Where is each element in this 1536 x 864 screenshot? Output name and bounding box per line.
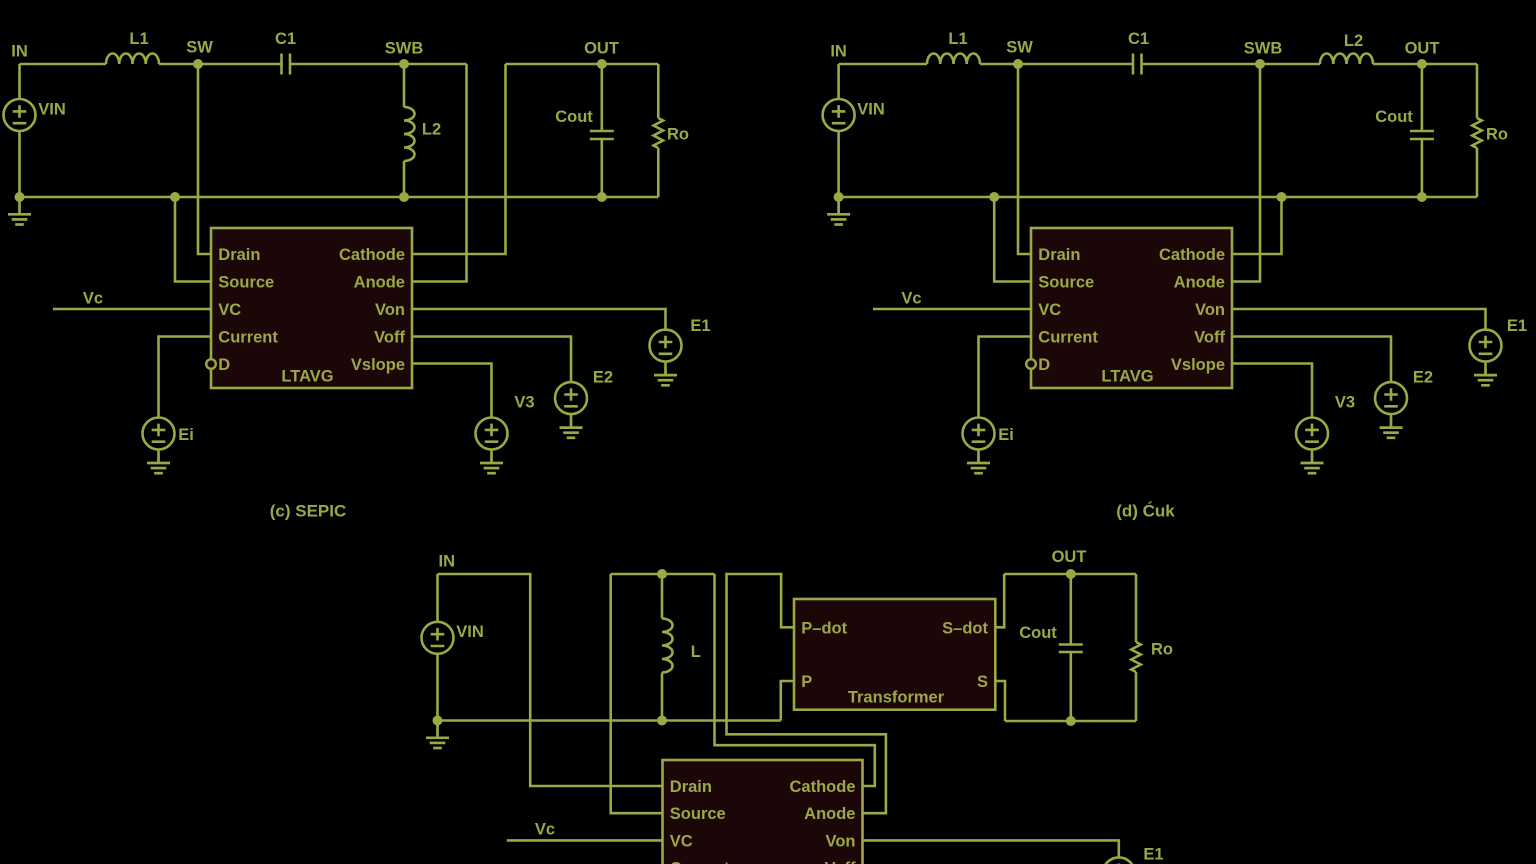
- voltage source VIN: [4, 99, 36, 131]
- node SW junction: [193, 59, 203, 69]
- capacitor Cout top lead: [600, 64, 603, 131]
- resistor Ro top lead: [657, 64, 660, 118]
- wire SW to IC Drain: [198, 64, 211, 254]
- svg-text:VIN: VIN: [456, 623, 484, 641]
- svg-text:VIN: VIN: [857, 100, 885, 118]
- svg-text:V3: V3: [514, 394, 534, 412]
- svg-text:Ro: Ro: [667, 126, 689, 144]
- wire anode riser to IC Anode: [412, 64, 467, 282]
- node OUT junction: [597, 59, 607, 69]
- resistor Ro bottom lead: [1135, 672, 1138, 721]
- svg-text:Von: Von: [826, 832, 856, 850]
- svg-text:Vc: Vc: [901, 290, 921, 308]
- inductor L2: [404, 107, 415, 161]
- wire ground rail: [839, 196, 1477, 199]
- svg-text:Ei: Ei: [178, 426, 194, 444]
- capacitor Cout top lead: [1070, 574, 1073, 645]
- wire IN to L1: [20, 63, 107, 66]
- voltage source V3: [476, 418, 508, 450]
- svg-text:Ei: Ei: [998, 426, 1014, 444]
- junction L2-rail: [399, 192, 409, 202]
- inductor L1: [927, 54, 980, 65]
- wire Current to Ei: [159, 337, 212, 418]
- voltage source Ei: [143, 418, 175, 450]
- voltage source E1: [650, 330, 682, 362]
- svg-text:SWB: SWB: [385, 40, 424, 58]
- wire C1 to SWB to L2: [1142, 63, 1321, 66]
- wire ground rail: [20, 196, 659, 199]
- resistor Ro: [654, 118, 664, 148]
- wire VIN top lead: [436, 574, 439, 622]
- resistor Ro top lead: [1135, 574, 1138, 642]
- inductor L2: [1320, 54, 1373, 65]
- svg-text:Cathode: Cathode: [339, 246, 405, 264]
- resistor Ro bottom lead: [1476, 148, 1479, 197]
- wire Von to E1: [863, 840, 1119, 857]
- wire VIN top lead: [837, 64, 840, 99]
- inductor L bottom lead: [661, 673, 664, 721]
- op-amp-style averaged switch model IC U2 LTAVG: [1031, 228, 1232, 388]
- wire IC Cathode riser: [412, 64, 506, 254]
- wire VIN top lead: [18, 64, 21, 99]
- wire P to input rail: [781, 681, 794, 721]
- svg-text:IN: IN: [11, 43, 28, 61]
- inductor L1: [106, 54, 159, 65]
- wire source net top: [611, 573, 715, 576]
- ground at V3: [480, 454, 503, 473]
- svg-text:Voff: Voff: [825, 860, 856, 864]
- wire IC Source drop: [611, 574, 663, 813]
- wire Vslope to V3: [412, 364, 492, 418]
- op-amp-style averaged switch model IC U1 LTAVG: [211, 228, 412, 388]
- wire VIN bottom lead: [436, 654, 439, 721]
- ground at VIN: [8, 197, 31, 225]
- transformer T1: [794, 599, 995, 710]
- wire Ei bottom lead: [977, 450, 980, 455]
- svg-text:Vslope: Vslope: [1171, 356, 1225, 374]
- wire IC Anode to P-dot bridge: [727, 574, 886, 813]
- capacitor Cout top lead: [1421, 64, 1424, 131]
- svg-text:LTAVG: LTAVG: [1101, 367, 1153, 385]
- ground at VIN: [426, 721, 449, 749]
- voltage source VIN: [823, 99, 855, 131]
- svg-text:Cout: Cout: [1375, 108, 1413, 126]
- voltage source E1: [1470, 330, 1502, 362]
- svg-text:Cathode: Cathode: [790, 778, 856, 796]
- wire L1 to C1: [980, 63, 1133, 66]
- wire V3 bottom lead: [490, 450, 493, 455]
- wire IN to drain drop: [438, 574, 663, 786]
- wire OUT top: [506, 63, 659, 66]
- svg-text:L2: L2: [1344, 32, 1363, 50]
- junction L bottom: [657, 716, 667, 726]
- wire SW to IC Drain: [1018, 64, 1031, 254]
- svg-text:Ro: Ro: [1486, 126, 1508, 144]
- svg-text:V3: V3: [1335, 394, 1355, 412]
- svg-text:IN: IN: [439, 553, 456, 571]
- svg-text:VC: VC: [218, 301, 241, 319]
- svg-text:C1: C1: [1128, 30, 1149, 48]
- svg-text:OUT: OUT: [1405, 40, 1440, 58]
- voltage source VIN: [422, 622, 454, 654]
- svg-text:Voff: Voff: [1194, 329, 1225, 347]
- svg-text:IN: IN: [830, 43, 847, 61]
- svg-text:SW: SW: [1006, 39, 1033, 57]
- junction Cout-rail: [597, 192, 607, 202]
- node SW junction: [1013, 59, 1023, 69]
- svg-text:S: S: [977, 673, 988, 691]
- svg-text:Von: Von: [1195, 301, 1225, 319]
- svg-text:L2: L2: [422, 120, 441, 138]
- resistor Ro: [1472, 118, 1482, 148]
- wire Von to E1: [412, 309, 666, 330]
- svg-text:Anode: Anode: [804, 805, 855, 823]
- capacitor Cout: [590, 131, 614, 139]
- junction VIN-rail: [834, 192, 844, 202]
- pin D inversion bubble: [1026, 359, 1036, 369]
- svg-text:P: P: [801, 673, 812, 691]
- wire Current to Ei: [979, 337, 1032, 418]
- voltage source E2: [555, 382, 587, 414]
- svg-text:L1: L1: [948, 30, 967, 48]
- wire VIN bottom lead: [18, 131, 21, 197]
- node SWB junction: [399, 59, 409, 69]
- resistor Ro bottom lead: [657, 148, 660, 197]
- voltage source V3: [1296, 418, 1328, 450]
- junction source-rail: [170, 192, 180, 202]
- svg-text:Ro: Ro: [1151, 641, 1173, 659]
- ground at VIN: [827, 197, 850, 225]
- svg-text:VC: VC: [1038, 301, 1061, 319]
- wire VIN bottom lead: [837, 131, 840, 197]
- svg-text:Drain: Drain: [670, 778, 712, 796]
- svg-text:D: D: [1038, 356, 1050, 374]
- wire input ground rail: [438, 719, 781, 722]
- svg-text:D: D: [218, 356, 230, 374]
- svg-text:Cathode: Cathode: [1159, 246, 1225, 264]
- junction source-rail: [989, 192, 999, 202]
- svg-text:Cout: Cout: [555, 108, 593, 126]
- svg-text:Drain: Drain: [1038, 246, 1080, 264]
- wire E2 bottom lead: [570, 414, 573, 419]
- wire E1 bottom lead: [664, 362, 667, 367]
- wire IC Source to ground rail: [994, 197, 1031, 282]
- svg-text:OUT: OUT: [1052, 548, 1087, 566]
- inductor L: [662, 619, 673, 673]
- node OUT junction: [1417, 59, 1427, 69]
- wire Voff to E2: [412, 337, 571, 383]
- ground at E2: [1380, 419, 1403, 438]
- junction Cout-rail: [1417, 192, 1427, 202]
- wire E1 bottom lead: [1484, 362, 1487, 367]
- ground at E1: [1474, 366, 1497, 385]
- svg-text:E1: E1: [690, 317, 710, 335]
- svg-text:E2: E2: [593, 369, 613, 387]
- voltage source E1: [1103, 857, 1135, 864]
- wire IC Source to ground rail: [175, 197, 211, 282]
- svg-text:VC: VC: [670, 832, 693, 850]
- svg-text:Source: Source: [670, 805, 726, 823]
- svg-text:Source: Source: [218, 274, 274, 292]
- pin D inversion bubble: [206, 359, 216, 369]
- resistor Ro: [1131, 642, 1141, 672]
- svg-text:Voff: Voff: [374, 329, 405, 347]
- svg-text:Current: Current: [1038, 329, 1098, 347]
- svg-text:L: L: [691, 643, 701, 661]
- svg-text:Anode: Anode: [1174, 274, 1225, 292]
- svg-text:Drain: Drain: [218, 246, 260, 264]
- svg-text:Anode: Anode: [354, 274, 405, 292]
- svg-text:Vc: Vc: [83, 290, 103, 308]
- capacitor C1: [1133, 54, 1142, 75]
- junction VIN-rail: [433, 716, 443, 726]
- wire Voff to E2: [1232, 337, 1391, 383]
- svg-text:E1: E1: [1143, 846, 1163, 864]
- wire Vslope to V3: [1232, 364, 1312, 418]
- wire Vc input: [53, 308, 211, 311]
- wire Vc input: [507, 839, 663, 842]
- node OUT junction: [1066, 569, 1076, 579]
- voltage source E2: [1375, 382, 1407, 414]
- capacitor Cout bottom lead: [1421, 139, 1424, 197]
- wire IN to L1: [839, 63, 927, 66]
- svg-text:S–dot: S–dot: [942, 619, 988, 637]
- inductor L2 bottom lead: [403, 161, 406, 197]
- wire Von to E1: [1232, 309, 1486, 330]
- capacitor Cout: [1410, 131, 1434, 139]
- ground at E1: [654, 366, 677, 385]
- wire V3 bottom lead: [1311, 450, 1314, 455]
- wire L2 to OUT to Ro: [1373, 63, 1477, 66]
- voltage source Ei: [963, 418, 995, 450]
- svg-text:P–dot: P–dot: [801, 619, 847, 637]
- wire IC Cathode to ground rail: [1232, 197, 1282, 254]
- wire S to output rail: [995, 681, 1005, 721]
- junction VIN-rail: [15, 192, 25, 202]
- svg-text:Vc: Vc: [535, 821, 555, 839]
- op-amp-style averaged switch model IC U3 LTAVG: [663, 760, 863, 864]
- svg-text:(c) SEPIC: (c) SEPIC: [270, 502, 347, 521]
- junction L top: [657, 569, 667, 579]
- svg-text:E1: E1: [1507, 317, 1527, 335]
- wire S-dot riser: [995, 574, 1004, 627]
- svg-text:Current: Current: [218, 329, 278, 347]
- svg-text:C1: C1: [275, 30, 296, 48]
- wire OUT top: [1004, 573, 1136, 576]
- ground at Ei: [967, 454, 990, 473]
- wire E2 bottom lead: [1390, 414, 1393, 419]
- svg-text:Vslope: Vslope: [351, 356, 405, 374]
- svg-text:LTAVG: LTAVG: [281, 367, 333, 385]
- wire Ei bottom lead: [157, 450, 160, 455]
- junction cathode-rail: [1277, 192, 1287, 202]
- junction Cout-rail: [1066, 716, 1076, 726]
- inductor L top lead: [661, 574, 664, 619]
- svg-text:L1: L1: [129, 30, 148, 48]
- svg-text:Transformer: Transformer: [848, 688, 945, 706]
- wire Vc input: [873, 308, 1031, 311]
- node SWB junction: [1255, 59, 1265, 69]
- ground at Ei: [147, 454, 170, 473]
- wire output ground rail: [1005, 720, 1136, 723]
- capacitor C1: [282, 54, 291, 75]
- svg-text:Current: Current: [670, 860, 730, 864]
- svg-text:Cout: Cout: [1019, 624, 1057, 642]
- wire SWB to IC Anode: [1232, 64, 1260, 282]
- ground at E2: [560, 419, 583, 438]
- svg-text:(d) Ćuk: (d) Ćuk: [1116, 502, 1175, 521]
- svg-text:E2: E2: [1413, 369, 1433, 387]
- svg-text:Von: Von: [375, 301, 405, 319]
- inductor L2 top lead: [403, 64, 406, 107]
- ground at V3: [1301, 454, 1324, 473]
- wire IC Cathode riser: [715, 574, 875, 786]
- wire L1 to C1: [159, 63, 282, 66]
- svg-text:SW: SW: [186, 39, 213, 57]
- svg-text:VIN: VIN: [38, 100, 66, 118]
- capacitor Cout: [1059, 645, 1083, 653]
- wire C1 to SWB to anode riser: [290, 63, 467, 66]
- resistor Ro top lead: [1476, 64, 1479, 118]
- svg-text:OUT: OUT: [584, 40, 619, 58]
- svg-text:SWB: SWB: [1244, 40, 1283, 58]
- capacitor Cout bottom lead: [600, 139, 603, 197]
- capacitor Cout bottom lead: [1070, 652, 1073, 721]
- svg-text:Source: Source: [1038, 274, 1094, 292]
